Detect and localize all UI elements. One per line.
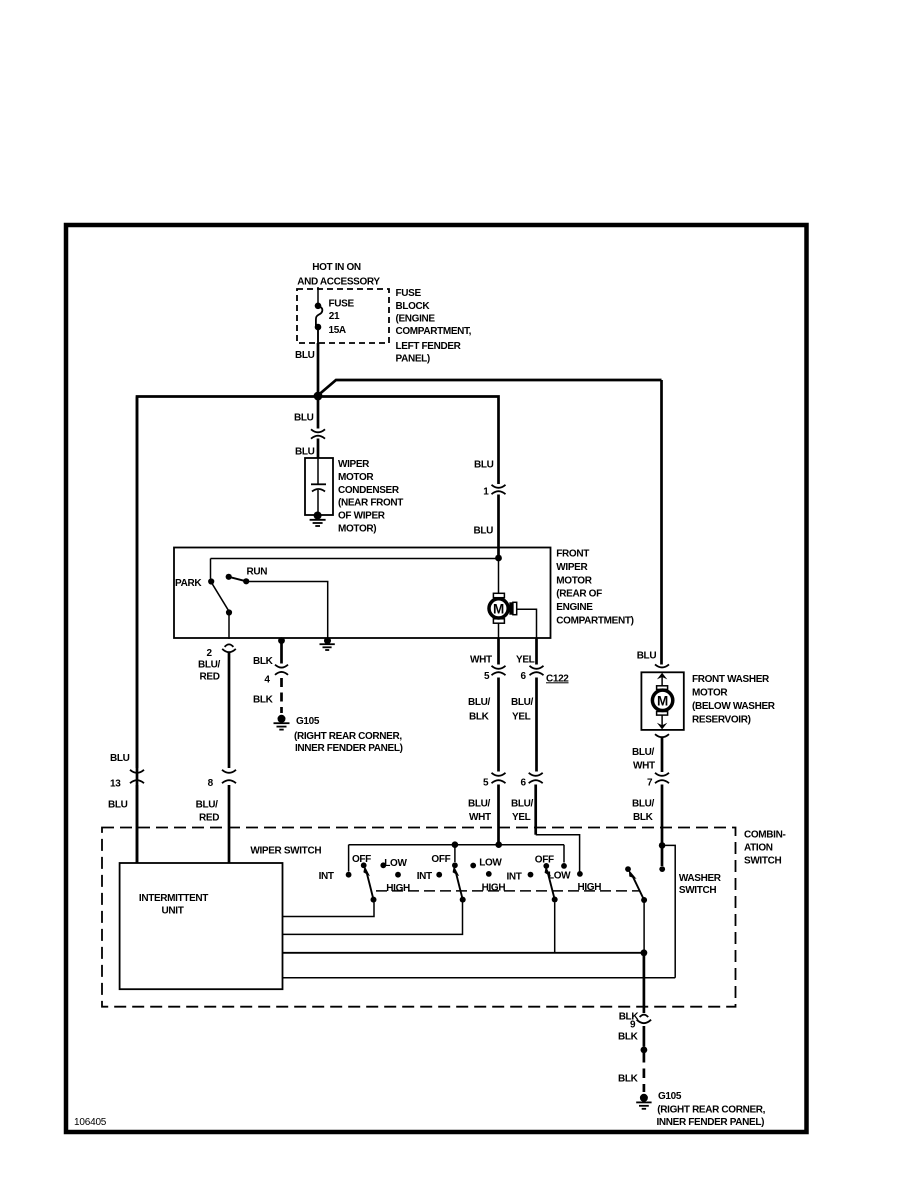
svg-text:INTERMITTENT: INTERMITTENT [139,893,208,904]
svg-text:OFF: OFF [535,854,554,865]
svg-text:BLK: BLK [618,1074,639,1085]
svg-text:BLU: BLU [294,413,314,424]
svg-text:9: 9 [630,1019,636,1030]
svg-text:HIGH: HIGH [386,883,410,894]
svg-text:5: 5 [484,671,490,682]
svg-text:(RIGHT REAR CORNER,: (RIGHT REAR CORNER, [657,1104,765,1115]
svg-text:(BELOW WASHER: (BELOW WASHER [692,701,776,712]
svg-text:BLU/: BLU/ [468,697,491,708]
svg-text:BLU/: BLU/ [468,799,491,810]
svg-text:MOTOR): MOTOR) [338,524,376,535]
svg-text:HIGH: HIGH [578,882,602,893]
svg-text:LOW: LOW [548,871,571,882]
svg-text:BLK: BLK [253,656,274,667]
svg-text:7: 7 [647,778,653,789]
svg-text:CONDENSER: CONDENSER [338,485,400,496]
svg-text:OFF: OFF [352,854,371,865]
svg-text:FRONT: FRONT [556,549,589,560]
svg-text:BLU: BLU [295,350,315,361]
svg-text:HOT IN ON: HOT IN ON [312,262,361,273]
svg-text:BLU: BLU [108,800,128,811]
svg-text:BLU/: BLU/ [511,697,534,708]
svg-text:BLU/: BLU/ [632,747,655,758]
svg-text:COMPARTMENT): COMPARTMENT) [556,615,633,626]
svg-text:HIGH: HIGH [482,882,506,893]
svg-text:INT: INT [507,872,522,883]
svg-text:BLU/: BLU/ [198,660,221,671]
svg-text:BLK: BLK [633,812,654,823]
svg-text:WHT: WHT [633,761,655,772]
svg-text:YEL: YEL [516,654,535,665]
svg-text:(REAR OF: (REAR OF [556,589,602,600]
svg-text:RED: RED [200,671,220,682]
svg-text:SWITCH: SWITCH [744,856,781,867]
svg-text:MOTOR: MOTOR [338,472,374,483]
svg-text:RESERVOIR): RESERVOIR) [692,715,751,726]
svg-text:6: 6 [521,778,527,789]
svg-text:BLOCK: BLOCK [396,301,431,312]
svg-text:MOTOR: MOTOR [692,687,728,698]
svg-text:BLU: BLU [295,447,315,458]
svg-text:LOW: LOW [384,858,407,869]
svg-text:YEL: YEL [512,711,531,722]
svg-text:4: 4 [264,675,270,686]
svg-text:BLK: BLK [253,695,274,706]
svg-text:OFF: OFF [431,854,450,865]
svg-text:LEFT FENDER: LEFT FENDER [396,341,462,352]
svg-text:PANEL): PANEL) [396,354,430,365]
svg-text:BLU/: BLU/ [632,799,655,810]
svg-text:2: 2 [207,648,213,659]
svg-text:WIPER: WIPER [338,459,370,470]
svg-text:ATION: ATION [744,843,773,854]
svg-text:YEL: YEL [512,812,531,823]
svg-text:BLU: BLU [474,525,494,536]
svg-text:ENGINE: ENGINE [556,602,593,613]
svg-text:PARK: PARK [175,578,202,589]
svg-text:INNER FENDER PANEL): INNER FENDER PANEL) [295,743,403,754]
svg-text:8: 8 [208,778,214,789]
svg-text:BLU: BLU [110,753,130,764]
svg-text:(RIGHT REAR CORNER,: (RIGHT REAR CORNER, [294,731,402,742]
svg-text:13: 13 [110,779,121,790]
svg-text:FUSE: FUSE [329,299,355,310]
svg-text:M: M [657,694,668,709]
svg-text:WHT: WHT [469,812,491,823]
svg-text:SWITCH: SWITCH [679,885,716,896]
svg-text:INNER FENDER PANEL): INNER FENDER PANEL) [657,1117,765,1128]
svg-text:G105: G105 [296,716,320,727]
svg-text:5: 5 [483,778,489,789]
svg-text:15A: 15A [329,325,346,336]
svg-text:(NEAR FRONT: (NEAR FRONT [338,498,403,509]
svg-text:(ENGINE: (ENGINE [396,313,436,324]
svg-text:C122: C122 [546,673,569,684]
svg-text:BLK: BLK [469,711,490,722]
svg-text:RUN: RUN [247,567,268,578]
svg-text:BLU: BLU [474,459,494,470]
svg-text:WHT: WHT [470,654,492,665]
svg-text:BLU: BLU [637,650,657,661]
svg-text:COMPARTMENT,: COMPARTMENT, [396,326,472,337]
svg-text:G105: G105 [658,1091,682,1102]
svg-text:INT: INT [417,871,432,882]
svg-text:MOTOR: MOTOR [556,575,592,586]
svg-text:BLU/: BLU/ [196,800,219,811]
svg-text:BLK: BLK [618,1032,639,1043]
svg-text:BLU/: BLU/ [511,799,534,810]
svg-text:AND ACCESSORY: AND ACCESSORY [297,277,380,288]
svg-text:INT: INT [319,871,334,882]
svg-text:WASHER: WASHER [679,873,722,884]
svg-text:1: 1 [483,487,489,498]
svg-text:RED: RED [199,812,219,823]
svg-text:6: 6 [521,671,527,682]
svg-text:FRONT WASHER: FRONT WASHER [692,674,770,685]
svg-text:UNIT: UNIT [162,905,184,916]
svg-text:BLK: BLK [619,1012,640,1023]
svg-text:LOW: LOW [479,858,502,869]
svg-text:106405: 106405 [74,1117,107,1128]
svg-text:OF WIPER: OF WIPER [338,511,386,522]
svg-text:FUSE: FUSE [396,288,422,299]
svg-text:21: 21 [329,311,340,322]
svg-text:COMBIN-: COMBIN- [744,830,785,841]
svg-text:WIPER SWITCH: WIPER SWITCH [250,846,321,857]
svg-text:WIPER: WIPER [556,562,588,573]
svg-text:M: M [493,602,504,617]
